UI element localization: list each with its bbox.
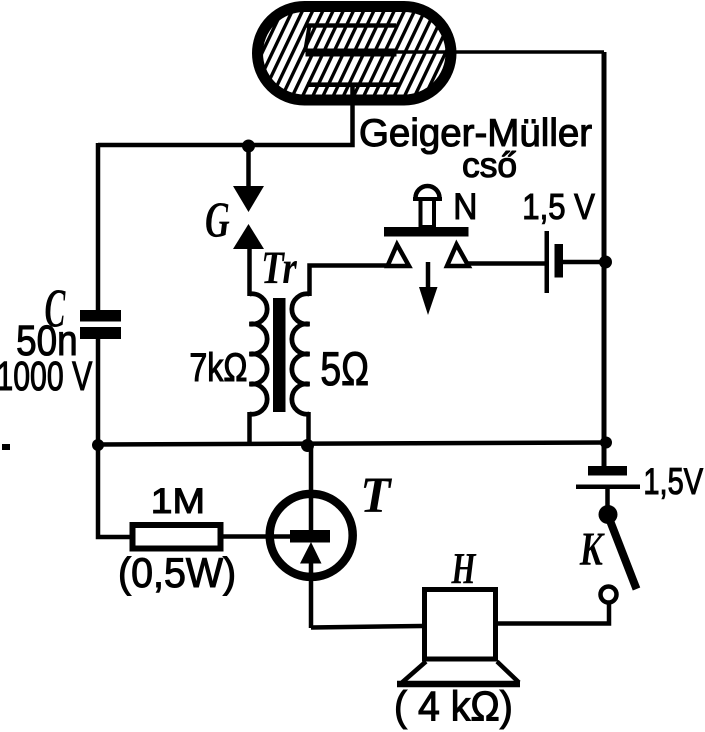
svg-text:Tr: Tr xyxy=(261,242,297,294)
pushbutton N plunger dome xyxy=(416,186,440,198)
spark gap G electrode up xyxy=(233,224,264,249)
svg-text:H: H xyxy=(451,545,477,593)
label H xyxy=(451,545,477,593)
switch K blade xyxy=(607,513,637,589)
switch K pivot xyxy=(599,505,618,524)
label N xyxy=(453,186,477,227)
capacitor C plates xyxy=(80,310,121,322)
svg-text:1000 V: 1000 V xyxy=(0,352,92,399)
bottom rail wire xyxy=(98,443,606,445)
label Tr xyxy=(261,242,297,294)
svg-text:(0,5W): (0,5W) xyxy=(118,549,236,596)
battery B1 positive plate xyxy=(545,231,550,293)
svg-text:N: N xyxy=(453,186,477,227)
resistor R1 left lead xyxy=(98,443,130,537)
wire speaker left to transistor emitter xyxy=(311,626,422,628)
transistor T base lead xyxy=(223,534,291,539)
transistor T emitter arrow xyxy=(300,542,322,564)
label Geiger-Müller xyxy=(359,112,592,155)
speaker H horn right xyxy=(497,662,519,683)
pushbutton N right contact xyxy=(447,245,469,267)
wire gap to primary xyxy=(247,248,252,296)
wire battery B2 to switch xyxy=(605,489,610,509)
label 1000 V xyxy=(0,352,92,399)
label 0,5W xyxy=(118,549,236,596)
label 1,5 V top xyxy=(522,188,595,228)
wire right contact to battery B1 xyxy=(466,261,545,266)
node right rail battery junction xyxy=(599,256,612,269)
node right rail bottom junction xyxy=(600,437,612,449)
label K xyxy=(579,524,606,577)
node transistor collector junction xyxy=(301,439,314,452)
transistor T base bar xyxy=(290,530,330,543)
node junction top rail / spark gap xyxy=(242,140,255,153)
svg-text:cső: cső xyxy=(462,146,517,185)
wire primary bottom xyxy=(247,412,252,445)
svg-text:7kΩ: 7kΩ xyxy=(189,345,247,390)
label 1,5V right xyxy=(643,462,703,503)
resistor R1 body xyxy=(133,525,221,549)
label C xyxy=(45,277,67,338)
label T xyxy=(360,466,392,523)
label 4k ohm xyxy=(394,682,513,729)
wire left rail upper xyxy=(96,143,101,312)
speaker H horn mouth xyxy=(397,681,520,688)
wire secondary top to pushbutton xyxy=(310,266,390,297)
label 5 ohm xyxy=(320,343,369,395)
speaker H box xyxy=(425,590,496,660)
transformer core xyxy=(273,298,286,412)
battery B1 negative plate xyxy=(555,244,564,278)
pushbutton N bar xyxy=(384,227,469,237)
speaker H horn left xyxy=(402,662,426,683)
wire left rail lower xyxy=(96,338,101,445)
svg-text:1M: 1M xyxy=(151,481,205,521)
wire battery B1 to right rail xyxy=(563,260,604,265)
wire tube bottom to top rail xyxy=(98,85,353,145)
transistor T body circle xyxy=(270,494,353,577)
svg-text:5Ω: 5Ω xyxy=(320,343,369,395)
label 7k ohm xyxy=(189,345,247,390)
wire right rail xyxy=(602,52,607,466)
battery B2 negative plate xyxy=(588,466,627,476)
pushbutton N left contact xyxy=(388,245,410,267)
svg-text:G: G xyxy=(205,192,230,248)
stray mark left edge xyxy=(2,444,10,450)
wire anode to right rail xyxy=(393,50,604,53)
svg-text:1,5 V: 1,5 V xyxy=(522,188,595,228)
battery B2 positive plate xyxy=(576,485,640,490)
spark gap G wire xyxy=(246,146,251,188)
pushbutton N dome base xyxy=(413,197,442,201)
transistor T emitter lead xyxy=(309,560,314,628)
transistor T collector lead xyxy=(309,445,314,532)
svg-text:1,5V: 1,5V xyxy=(643,462,703,503)
pushbutton N stem xyxy=(421,199,435,227)
switch K open contact xyxy=(601,587,617,603)
label 50n xyxy=(16,317,77,364)
label cso xyxy=(462,146,517,185)
pushbutton N arrow xyxy=(426,262,431,291)
wire secondary bottom xyxy=(306,412,311,446)
wire contact down to speaker rail xyxy=(498,605,609,624)
node left rail bottom xyxy=(92,439,104,451)
label 1M xyxy=(151,481,205,521)
spark gap G electrode down xyxy=(233,186,264,212)
svg-text:K: K xyxy=(579,524,606,577)
transformer Tr secondary winding 5 ohm xyxy=(292,294,310,414)
svg-text:T: T xyxy=(360,466,392,523)
transformer Tr primary winding 7k xyxy=(250,294,268,414)
svg-text:( 4 kΩ): ( 4 kΩ) xyxy=(394,682,513,729)
label G xyxy=(205,192,230,248)
Geiger-Müller tube V1 xyxy=(258,7,452,101)
